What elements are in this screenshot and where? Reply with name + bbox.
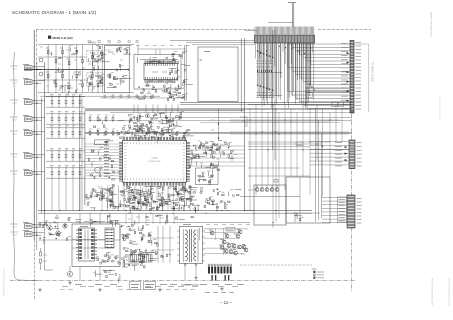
halo above MCU [117, 125, 194, 143]
row y119 extension [89, 116, 91, 122]
svg-text:www.s-manuals.com: www.s-manuals.com [438, 96, 442, 120]
more drop wires CN501 [259, 43, 314, 108]
connector CN108 [25, 224, 33, 229]
vertical wire x244.6 [244, 38, 246, 211]
transformer T601 box [180, 226, 203, 263]
resistor row [51, 99, 53, 105]
arrow marks near CN504 [345, 146, 348, 148]
wire y196.5 [240, 196, 300, 198]
wires through IC701 [72, 239, 105, 241]
junction dots below mcu [106, 210, 107, 211]
diode diagonal row A [257, 50, 274, 58]
vertical wires diode area [258, 43, 273, 98]
ground below transformer [194, 276, 197, 279]
wire into CN501 left [245, 29, 257, 31]
wires into CN504 [310, 141, 349, 143]
long vertical wires left of mcu box [79, 95, 81, 211]
row y133 extension [89, 130, 91, 136]
left column connector labels [10, 65, 18, 67]
IC IC501 [144, 63, 178, 79]
connector CN109 [25, 232, 33, 237]
pin column IC702 [105, 228, 114, 248]
board edge wavy left [13, 52, 38, 281]
wires into MCU top [133, 104, 135, 113]
wires swarm [199, 228, 201, 241]
component cluster in shield box [107, 48, 131, 88]
IC IC701 dual row [79, 228, 95, 261]
connector CN501 label band [255, 27, 314, 35]
labels right of CN505 [357, 198, 362, 200]
wires MCU left to box edge [85, 144, 121, 179]
wires below MCU vertical [101, 186, 103, 211]
capacitor cluster below IC501 [139, 84, 185, 101]
label row under transformer [181, 284, 190, 286]
section boundary dash-dot right vertical [351, 114, 353, 292]
vertical trunk to CN505 [315, 108, 317, 222]
transistor Q703 [63, 224, 67, 228]
wires below power box [79, 267, 81, 281]
section boundary dashed bottom right short [240, 264, 312, 266]
crystal X601 [95, 140, 107, 145]
section boundary dashed left stub [36, 30, 38, 65]
resistor row [51, 170, 53, 176]
wire connector to bus [33, 66, 45, 68]
part top right of box B [274, 180, 278, 183]
legend text lines [317, 271, 325, 273]
pin labels left of CN503 [341, 43, 348, 45]
shield sub-board box [105, 46, 130, 93]
long vertical wires right cluster [271, 30, 273, 150]
wire connector to bus [33, 154, 45, 156]
wire row rails [46, 150, 85, 152]
bottom mid extra labels [146, 219, 150, 221]
box around IC501 [134, 55, 181, 90]
shield box empty [198, 47, 238, 102]
parts bottom-left gap [40, 252, 42, 256]
section boundary dashed lower left vertical [34, 240, 36, 299]
wire right from row B [257, 95, 282, 97]
transformer T601 windings [185, 229, 196, 262]
labels above IC701 [76, 221, 81, 223]
parts on rails y96 [104, 95, 106, 98]
wire IC501 top rail [140, 59, 178, 61]
reset circuit box [196, 168, 219, 185]
connector CN105 [25, 131, 33, 136]
section boundary dashed top [36, 29, 254, 31]
bracket line right [368, 50, 370, 112]
mcu section box left [84, 111, 86, 205]
label band A3 [256, 66, 258, 68]
component cluster middle bottom [121, 224, 156, 271]
component cluster reset box [198, 172, 213, 185]
label box mid right [296, 142, 303, 146]
wires down to CN505 region [321, 195, 323, 198]
IC601 pin fringe [119, 137, 190, 186]
svg-text:– 12 –: – 12 – [220, 300, 233, 305]
halo below MCU right part [198, 189, 242, 212]
tiny label scatter top rail [96, 45, 99, 47]
component cluster bottom-left [39, 217, 69, 244]
gap parts [155, 243, 171, 258]
svg-text:www.s-manuals.com: www.s-manuals.com [2, 268, 6, 296]
connector CN503 bar [350, 41, 354, 114]
label T601 [183, 224, 191, 226]
ground symbol mid [98, 288, 101, 291]
parts row above analog block [88, 41, 90, 42]
component cluster right of IC501 [169, 51, 193, 99]
wires into CN505 [322, 197, 347, 199]
pin labels right of CN503 [356, 42, 362, 44]
analog ladder vertical wires [47, 45, 49, 93]
IC601 inner pin numbers ring [124, 142, 184, 180]
label boxes x332 [332, 102, 338, 107]
component cluster power box lower [97, 253, 120, 264]
relay box B [286, 177, 330, 223]
wire row rails [46, 167, 85, 169]
bus horizontal secondary [38, 222, 250, 224]
connector CN106 [25, 154, 33, 159]
wires into power box top [79, 213, 81, 224]
extra cluster below MCU dense [101, 188, 192, 214]
extra analog block fill [51, 46, 110, 95]
resistor row [51, 116, 53, 122]
bottom tiny row [205, 292, 210, 294]
connector CN505 bar [347, 195, 355, 228]
label box x306 [306, 93, 312, 98]
transistor row above box A [255, 188, 259, 192]
section boundary dashed top right part [318, 29, 371, 31]
wires CN501 to CN503 [288, 43, 350, 109]
resistor row [51, 130, 53, 136]
svg-text:TO MAIN C-B (2/2): TO MAIN C-B (2/2) [371, 62, 374, 82]
component cluster left of MCU [88, 119, 124, 199]
arrow marks near CN503 [347, 52, 350, 54]
wires right of MCU [188, 145, 245, 147]
bus second line y109.7 [85, 109, 352, 111]
wires below transformer [184, 264, 186, 281]
halo below MCU extra [85, 189, 102, 212]
svg-text:www.s-manuals.com: www.s-manuals.com [448, 278, 452, 306]
ground symbol far left [38, 288, 41, 291]
component cluster below MCU [99, 185, 200, 213]
labels right of CN504 [357, 142, 362, 144]
halo right MCU [196, 141, 234, 167]
extra labels near swarm [206, 224, 210, 226]
wire connector to bus [33, 171, 45, 173]
wire row rails [46, 96, 85, 98]
wire connector to bus [33, 131, 45, 133]
wire right from tick row A [257, 72, 282, 74]
bus horizontal main [38, 210, 312, 212]
wires dropping from CN501 [256, 43, 313, 107]
label box IC605 [130, 282, 141, 290]
wire connector to bus [33, 80, 45, 82]
bottom component labels [75, 284, 82, 286]
wires above IC501 [137, 45, 139, 55]
resistor array left of MCU [104, 142, 109, 176]
mcu section box top [85, 110, 245, 112]
dashed sub-box op-amp upper [87, 51, 103, 62]
wire stub above CN501 [291, 3, 293, 27]
label band B2 [256, 94, 258, 96]
dense cluster below MCU second pass [103, 189, 197, 209]
more bottom band labels [62, 286, 68, 288]
svg-text:IC601: IC601 [152, 158, 159, 160]
connector CN107 [25, 171, 33, 176]
bus line left 3 [41, 98, 43, 213]
junction dots near CN503 lower [309, 83, 310, 84]
extra bottom labels [60, 289, 65, 291]
wire row rails [46, 127, 85, 129]
component cluster right of MCU [189, 144, 219, 175]
connector CN102 [25, 80, 33, 85]
wire trunk to right boxes [245, 210, 254, 212]
divider in box B [299, 177, 301, 223]
dashed sub-box op-amp lower [87, 73, 103, 86]
bus pair y132 [85, 131, 352, 133]
legend symbols [314, 271, 316, 279]
transistor Q704 with circle [67, 271, 72, 276]
labels near x212 [211, 119, 215, 121]
connector CN504 bar [349, 140, 355, 169]
analog rails horizontal [38, 44, 134, 46]
wire grid right middle [248, 104, 352, 228]
junction dots right grid [272, 104, 273, 105]
connector CN104 [25, 117, 33, 122]
label band B3 [256, 97, 258, 99]
svg-text:SYSTEM CONT: SYSTEM CONT [148, 161, 160, 163]
component cluster dashed boxes [92, 52, 106, 62]
capacitor bank C641-C648 [208, 264, 232, 274]
power section box [72, 224, 120, 267]
wire row rails [46, 113, 85, 115]
vertical wire x218.5 [218, 109, 220, 142]
hatched label box RY601 [226, 228, 235, 232]
svg-text:SCHEMATIC DIAGRAM - 1 (MAIN 1/: SCHEMATIC DIAGRAM - 1 (MAIN 1/2) [12, 10, 97, 15]
vertical wires rows to bus [51, 178, 53, 210]
label band B1 [256, 92, 258, 94]
vertical wire x241 [240, 38, 242, 112]
ground symbol Q704 [68, 281, 71, 284]
bus analog main horizontal [24, 69, 128, 71]
svg-text:VR501: VR501 [88, 41, 96, 45]
label row above IC605 boxes [122, 263, 130, 265]
board name label MAIN C-B (1/2) [48, 36, 51, 39]
transistor swarm [210, 231, 214, 235]
label band A1 [256, 60, 258, 62]
component cluster above MCU left [128, 114, 158, 141]
transistor Q702 [56, 231, 60, 235]
transformer inner detail [182, 229, 184, 262]
diode diagonal row B [257, 84, 274, 91]
hook wires right of shield [240, 117, 247, 127]
svg-text:MAIN C-B (1/2): MAIN C-B (1/2) [53, 36, 73, 40]
bus pair below shield box [180, 102, 352, 104]
ceramic resonator circle [95, 167, 101, 173]
IC IC601 microcontroller body [123, 140, 187, 182]
wire pair right of IC501 [184, 45, 186, 101]
bus line left 1 [33, 30, 35, 240]
wire connector to bus [33, 224, 45, 226]
swarm labels [209, 229, 212, 231]
label box left of CN505 [338, 197, 347, 222]
transformer pins [177, 230, 180, 232]
wire Q704 [69, 266, 71, 271]
legend header [312, 268, 317, 270]
section boundary dash-dot bottom [10, 280, 355, 282]
label band A2 [256, 63, 258, 65]
svg-text:www.s-manuals.com: www.s-manuals.com [431, 278, 435, 306]
transistor Q701 [48, 226, 52, 230]
sparse parts above power box [107, 215, 193, 227]
dots at CN501 drops [260, 53, 261, 54]
wires horizontal central band [85, 108, 352, 110]
wires bottom left [44, 213, 46, 270]
parts in IC501 box top [138, 57, 176, 64]
label box +B ADJ [144, 282, 156, 290]
label above CN501 [268, 22, 293, 24]
resistor row [51, 153, 53, 159]
wires above shield box [170, 39, 310, 41]
connector CN101 [25, 66, 33, 71]
analog labels [46, 47, 49, 49]
dark tick row A [257, 70, 271, 72]
analog ladder resistors [47, 49, 49, 55]
cluster above MCU third [130, 115, 174, 135]
connector CN103 [25, 100, 33, 105]
ground symbol right [220, 287, 223, 290]
svg-text:www.s-manuals.com: www.s-manuals.com [430, 12, 434, 37]
pin pairs below caps [212, 275, 230, 281]
small parts in box B [295, 213, 302, 222]
more tiny labels topleft [40, 46, 43, 48]
extended grid lines left [230, 119, 248, 121]
labels left of CN504 [335, 142, 342, 144]
junction dots on main bus [44, 210, 45, 211]
capacitor tick row [129, 255, 152, 263]
bottom middle extra density [123, 234, 157, 263]
vertical wires middle bottom [125, 213, 127, 224]
wire connector to bus [33, 117, 45, 119]
potentiometer VR502 [39, 58, 43, 62]
relay box A [254, 185, 286, 225]
component cluster above MCU right [155, 112, 183, 140]
wire connector to bus [33, 232, 45, 234]
strong wires to bar lower [305, 87, 350, 89]
ground symbol mid 2 [158, 288, 161, 291]
bus line left 4 [44, 62, 46, 213]
bus line left 2 [36, 62, 38, 250]
sparse wires mid-gap [157, 226, 159, 263]
component cluster below power box [95, 270, 120, 283]
connector CN501 body [255, 35, 315, 43]
wire connector to bus [33, 100, 45, 102]
